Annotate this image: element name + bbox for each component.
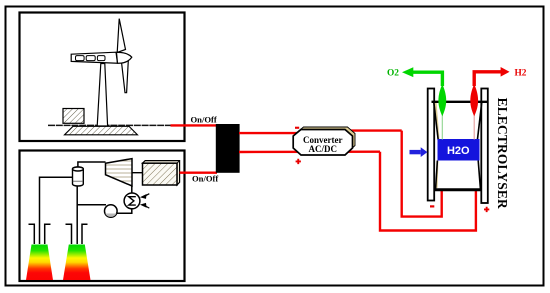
vessel upper right wall xyxy=(477,102,481,140)
turbine tower xyxy=(97,64,107,127)
wire generator to bus xyxy=(180,171,217,173)
pump xyxy=(105,205,118,218)
wire bus to converter positive xyxy=(239,150,380,153)
turbine blade lower xyxy=(121,60,128,93)
turbine shaft xyxy=(132,172,143,174)
green electrode line xyxy=(441,112,443,140)
O2 electrode xyxy=(438,84,446,116)
reinjection well gradient xyxy=(63,245,91,281)
nacelle xyxy=(71,52,117,63)
condenser xyxy=(124,193,140,209)
hub nose cone xyxy=(117,52,132,63)
svg-text:On/Off: On/Off xyxy=(191,115,217,125)
production well gradient xyxy=(26,245,53,281)
wellhead 2 xyxy=(66,224,88,244)
wire bus to converter negative xyxy=(239,131,402,134)
nacelle window 1 xyxy=(76,56,85,61)
svg-text:O2: O2 xyxy=(387,69,399,79)
H2 electrode xyxy=(470,84,478,116)
electrolyser right plate xyxy=(481,89,488,204)
plus terminal label xyxy=(484,207,489,212)
turbine blade upper xyxy=(117,19,125,53)
H2O liquid box xyxy=(438,139,480,161)
vessel upper left wall xyxy=(434,102,438,140)
vessel tan shading xyxy=(435,103,440,140)
bus bar xyxy=(216,124,240,173)
wellhead 1 xyxy=(29,224,51,244)
electrolyser left plate xyxy=(428,89,435,201)
H2 wire arrow xyxy=(474,72,501,86)
geothermal plant box xyxy=(20,151,185,282)
svg-text:On/Off: On/Off xyxy=(192,174,218,184)
ground line xyxy=(48,124,171,126)
steam turbine xyxy=(106,159,133,186)
plus sign converter xyxy=(296,159,301,164)
vessel top line xyxy=(432,101,489,103)
separator cylinder xyxy=(73,167,84,186)
condensate pipe pump-condenser xyxy=(116,209,132,213)
condenser fan arrows xyxy=(140,194,149,208)
transformer small box xyxy=(63,109,84,124)
nacelle window 2 xyxy=(86,56,95,61)
minus sign converter xyxy=(295,127,299,129)
minus terminal label xyxy=(430,205,434,207)
vessel lower left wall xyxy=(436,161,438,189)
svg-text:H2O: H2O xyxy=(447,145,470,157)
wire wind to bus xyxy=(171,124,218,126)
generator G xyxy=(143,161,180,185)
reinjection well pipe xyxy=(76,186,78,245)
red electrode line xyxy=(473,112,475,140)
O2 wire arrow xyxy=(413,72,442,86)
wire positive to electrolyser xyxy=(380,152,476,231)
pipe turbine-condenser xyxy=(131,186,133,193)
turbine base pedestal xyxy=(65,126,138,135)
converter AC/DC shadow xyxy=(296,127,356,153)
production well pipe xyxy=(40,177,73,244)
nacelle window 3 xyxy=(97,56,105,61)
svg-text:H2: H2 xyxy=(515,69,527,79)
brine pipe to pump xyxy=(77,204,106,206)
svg-text:ELECTROLYSER: ELECTROLYSER xyxy=(495,98,510,209)
steam pipe to turbine xyxy=(78,162,106,167)
vessel lower right wall xyxy=(478,161,480,189)
svg-text:AC/DC: AC/DC xyxy=(309,144,338,154)
wire negative to electrolyser xyxy=(402,131,442,217)
vessel bottom line xyxy=(435,188,482,191)
H2O feed blue arrow xyxy=(410,147,428,157)
wind turbine box xyxy=(20,13,185,142)
converter AC/DC body xyxy=(293,130,352,156)
